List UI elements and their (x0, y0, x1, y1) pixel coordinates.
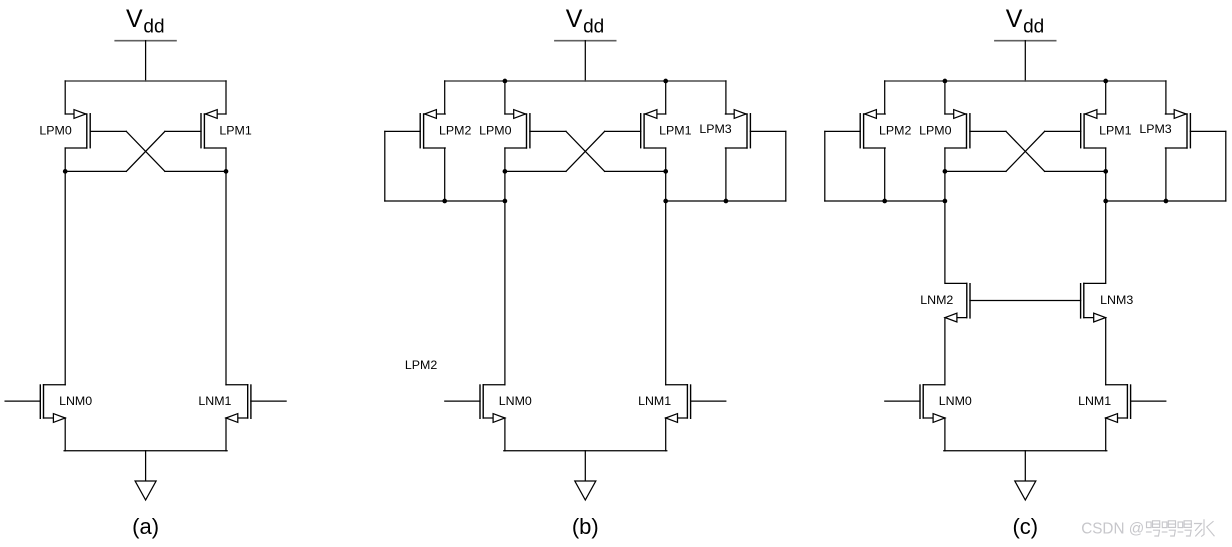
svg-text:LPM1: LPM1 (1099, 124, 1131, 138)
wire LNM0 source (504, 418, 506, 451)
wire cross-couple LPM1 gate to node A (1006, 131, 1045, 171)
wire LPM1 drain (665, 148, 667, 171)
wire Vdd rail (445, 80, 726, 82)
wire left branch (504, 171, 506, 384)
transistor LPM2 (PMOS diode-connected) (825, 110, 885, 148)
wire LPM1 drain (225, 148, 227, 171)
wire tail node (504, 450, 667, 452)
svg-text:dd: dd (583, 17, 604, 38)
wire LPM2 drain (884, 148, 886, 201)
wire LPM2 drain bus (385, 200, 505, 202)
svg-text:LPM2: LPM2 (439, 124, 471, 138)
junction LPM3 drain (724, 199, 729, 204)
junction rail-right (663, 79, 668, 84)
wire cross-couple LPM1 gate to node A (126, 131, 165, 171)
wire LPM1 source (225, 81, 227, 114)
wire LPM0 source (944, 81, 946, 114)
junction LPM2 drain (882, 199, 887, 204)
svg-text:CSDN @: CSDN @ (1081, 521, 1144, 538)
svg-text:LPM0: LPM0 (479, 124, 511, 138)
wire LPM3 drain bus (1106, 200, 1226, 202)
watermark CSDN @user (1081, 520, 1214, 538)
junction rail-left (943, 79, 948, 84)
wire LPM2 gate feedback (384, 131, 386, 201)
wire cross-couple LPM0 gate to node B (126, 131, 165, 171)
wire Vdd rail (65, 80, 226, 82)
wire LPM2 source (884, 81, 886, 114)
svg-text:LNM1: LNM1 (638, 394, 671, 408)
junction left diode node (503, 199, 508, 204)
wire LPM3 drain (1165, 148, 1167, 201)
transistor LNM3 (NMOS cascode) (1081, 283, 1106, 322)
junction left diode node (943, 199, 948, 204)
wire tail node (64, 450, 227, 452)
transistor LPM0 (PMOS) (505, 110, 566, 148)
wire node B (165, 170, 226, 172)
wire LPM1 source (1105, 81, 1107, 114)
svg-text:LNM0: LNM0 (59, 394, 92, 408)
svg-text:(a): (a) (132, 514, 159, 539)
junction LPM2 drain (442, 199, 447, 204)
wire LPM2 gate feedback (824, 131, 826, 201)
svg-text:dd: dd (143, 17, 164, 38)
wire LPM3 drain bus (666, 200, 786, 202)
svg-text:LPM2: LPM2 (405, 358, 437, 372)
wire node A (505, 170, 566, 172)
svg-text:LNM1: LNM1 (198, 394, 231, 408)
wire LPM0 drain (64, 148, 66, 171)
wire left branch upper (944, 171, 946, 283)
svg-text:LPM1: LPM1 (219, 124, 251, 138)
svg-text:dd: dd (1023, 17, 1044, 38)
transistor LNM1 (NMOS) (226, 385, 286, 423)
svg-text:LNM0: LNM0 (939, 394, 972, 408)
junction rail-left (503, 79, 508, 84)
Vdd supply bar (115, 40, 176, 42)
junction node B (1103, 169, 1108, 174)
wire LPM0 source (64, 81, 66, 114)
svg-text:LPM3: LPM3 (1139, 122, 1171, 136)
svg-text:V: V (566, 5, 583, 33)
wire cascode gate bus (970, 300, 1081, 302)
transistor LPM0 (PMOS) (945, 110, 1006, 148)
wire LPM3 gate feedback (1225, 131, 1227, 201)
transistor LNM0 (NMOS) (885, 385, 945, 423)
wire Vdd stem (1024, 41, 1026, 81)
junction LPM3 drain (1164, 199, 1169, 204)
svg-text:LPM1: LPM1 (659, 124, 691, 138)
wire LPM1 drain (1105, 148, 1107, 171)
wire node B (1045, 170, 1106, 172)
transistor LPM1 (PMOS) (605, 110, 666, 148)
wire LPM3 gate feedback (785, 131, 787, 201)
wire cross-couple LPM0 gate to node B (1006, 131, 1045, 171)
transistor LNM2 (NMOS cascode) (945, 283, 970, 322)
svg-text:LNM1: LNM1 (1078, 394, 1111, 408)
junction right diode node (1103, 199, 1108, 204)
wire ground stem (1024, 451, 1026, 481)
wire tail node (944, 450, 1107, 452)
svg-text:LPM0: LPM0 (919, 124, 951, 138)
wire right branch upper (1105, 171, 1107, 283)
svg-text:LNM3: LNM3 (1100, 293, 1133, 307)
wire LPM3 source (725, 81, 727, 114)
wire right branch (225, 171, 227, 384)
Vdd supply bar (995, 40, 1056, 42)
wire Vdd stem (145, 41, 147, 81)
wire LNM1 source (665, 418, 667, 451)
wire LPM2 source (444, 81, 446, 114)
wire node A (945, 170, 1006, 172)
transistor LNM0 (NMOS) (445, 385, 505, 423)
transistor LNM1 (NMOS) (1106, 385, 1166, 423)
svg-text:LPM3: LPM3 (699, 122, 731, 136)
wire LNM1 source (1105, 418, 1107, 451)
wire LPM1 source (665, 81, 667, 114)
wire node B (605, 170, 666, 172)
wire LPM3 drain (725, 148, 727, 201)
svg-text:(c): (c) (1012, 514, 1038, 539)
wire ground stem (145, 451, 147, 481)
svg-text:LPM2: LPM2 (879, 124, 911, 138)
wire LPM3 source (1165, 81, 1167, 114)
junction node A (63, 169, 68, 174)
wire LPM2 drain (444, 148, 446, 201)
wire cross-couple LPM1 gate to node A (566, 131, 605, 171)
transistor LPM1 (PMOS) (1045, 110, 1106, 148)
junction right diode node (663, 199, 668, 204)
wire LNM0 source (944, 418, 946, 451)
Vdd supply bar (555, 40, 616, 42)
wire LPM0 drain (944, 148, 946, 171)
ground (1015, 481, 1036, 500)
transistor LPM2 (PMOS diode-connected) (385, 110, 445, 148)
wire ground stem (584, 451, 586, 481)
transistor LPM0 (PMOS) (65, 110, 126, 148)
wire LNM0 source (64, 418, 66, 451)
ground (135, 481, 156, 500)
transistor LPM3 (PMOS diode-connected) (1165, 110, 1225, 148)
junction node A (943, 169, 948, 174)
wire right branch (665, 171, 667, 384)
transistor LNM0 (NMOS) (5, 385, 65, 423)
svg-text:V: V (1006, 5, 1023, 33)
ground (575, 481, 596, 500)
svg-text:V: V (126, 5, 143, 33)
wire LNM1 source (225, 418, 227, 451)
transistor LPM3 (PMOS diode-connected) (725, 110, 785, 148)
wire LPM2 drain bus (825, 200, 945, 202)
junction node B (663, 169, 668, 174)
wire Vdd rail (885, 80, 1166, 82)
junction rail-right (1103, 79, 1108, 84)
wire node A (65, 170, 126, 172)
wire Vdd stem (584, 41, 586, 81)
svg-text:(b): (b) (572, 514, 599, 539)
wire LNM3 source (1105, 318, 1107, 385)
svg-text:LNM0: LNM0 (499, 394, 532, 408)
wire left branch (64, 171, 66, 384)
wire cross-couple LPM0 gate to node B (566, 131, 605, 171)
transistor LNM1 (NMOS) (666, 385, 726, 423)
wire LNM2 source (944, 318, 946, 385)
wire LPM0 source (504, 81, 506, 114)
svg-text:LPM0: LPM0 (39, 124, 71, 138)
wire LPM0 drain (504, 148, 506, 171)
transistor LPM1 (PMOS) (165, 110, 226, 148)
junction node A (503, 169, 508, 174)
junction node B (224, 169, 229, 174)
svg-text:LNM2: LNM2 (920, 293, 953, 307)
